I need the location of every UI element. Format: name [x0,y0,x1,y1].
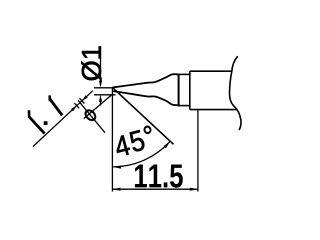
break S-curve [230,56,242,130]
shank bottom edge [190,109,237,111]
11.5 dim line [112,188,197,190]
bevel face ellipse [84,108,98,122]
arc right arrowhead [164,141,171,148]
collar top edge [178,73,190,75]
label O1 [81,61,101,80]
45 angle arc [113,141,170,167]
dia upper arrowhead [99,81,102,88]
1.1 dim line [33,91,93,147]
collar left edge [178,74,180,106]
ext line bottom of bevel [94,94,116,96]
face centerline through ellipse [78,100,105,132]
1.1 ext tick lower [74,103,79,108]
right extension line [197,111,199,192]
collar bottom edge [178,105,190,107]
shank left edge [189,71,191,109]
shank top edge [190,70,232,72]
label 1.1 (custom glyphs) [28,115,46,134]
11.5 left arrowhead [112,188,120,191]
11.5 right arrowhead [190,188,198,191]
tip top edge [113,74,179,87]
ext line top (at vertex level) [94,87,113,89]
label 45deg [113,135,131,158]
45 angle leg from vertex [113,88,174,145]
1.1 upper arrowhead (points down-left) [82,95,88,101]
tip bottom edge [113,91,178,105]
left extension line from vertex [111,88,113,192]
leader line from bevel corner to face ellipse [84,95,112,119]
dia lower arrowhead [99,95,102,102]
label 11.5 [135,164,147,187]
arc left arrowhead [113,166,121,169]
dia dim line upper [100,47,102,83]
1.1 ext tick upper [79,98,84,103]
1.1 lower arrowhead (points up-right) [71,106,77,112]
dia dim line lower tail [100,99,102,106]
